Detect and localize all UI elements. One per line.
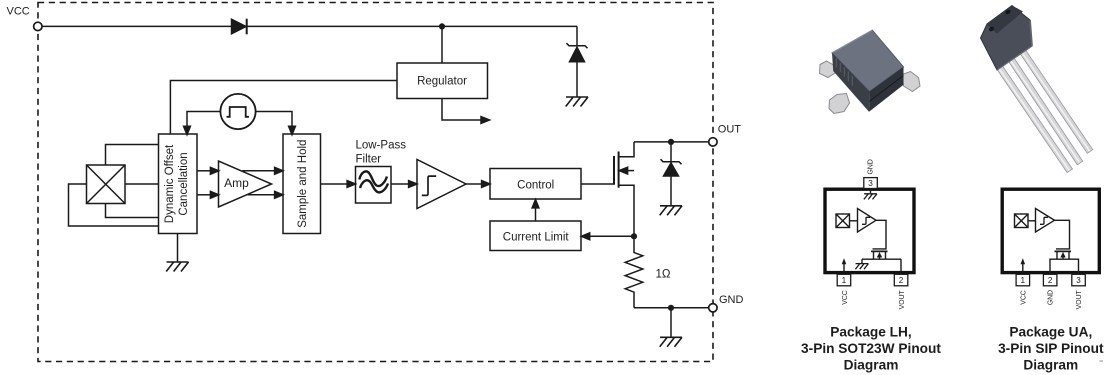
svg-text:1: 1 [842,276,847,285]
svg-text:2: 2 [1048,276,1053,285]
svg-text:1Ω: 1Ω [656,269,671,281]
svg-text:Regulator: Regulator [417,76,467,88]
svg-text:VOUT: VOUT [1076,289,1083,309]
svg-text:3: 3 [868,179,873,188]
svg-text:Package LH,: Package LH, [830,325,911,340]
svg-text:Diagram: Diagram [1023,358,1078,373]
svg-text:GND: GND [719,294,744,306]
svg-text:1: 1 [1021,276,1026,285]
svg-text:Control: Control [517,179,554,191]
svg-text:VCC: VCC [1020,290,1027,305]
svg-text:Current Limit: Current Limit [503,231,570,243]
svg-text:3-Pin SOT23W Pinout: 3-Pin SOT23W Pinout [801,341,941,356]
svg-text:3: 3 [1076,276,1081,285]
svg-text:VCC: VCC [7,5,30,17]
svg-text:VCC: VCC [842,290,849,305]
svg-text:VOUT: VOUT [899,289,906,309]
svg-text:Dynamic OffsetCancellation: Dynamic OffsetCancellation [164,144,190,223]
svg-text:Diagram: Diagram [844,358,899,373]
svg-text:GND: GND [1048,290,1055,305]
svg-text:Low-Pass: Low-Pass [356,140,407,152]
svg-text:Sample and Hold: Sample and Hold [297,140,309,228]
svg-text:Filter: Filter [356,153,382,165]
svg-text:Amp: Amp [224,176,249,190]
svg-text:Package UA,: Package UA, [1009,325,1092,340]
svg-text:GND: GND [868,159,875,174]
svg-text:OUT: OUT [718,123,742,135]
svg-text:2: 2 [899,276,904,285]
svg-text:3-Pin SIP Pinout: 3-Pin SIP Pinout [998,341,1104,356]
